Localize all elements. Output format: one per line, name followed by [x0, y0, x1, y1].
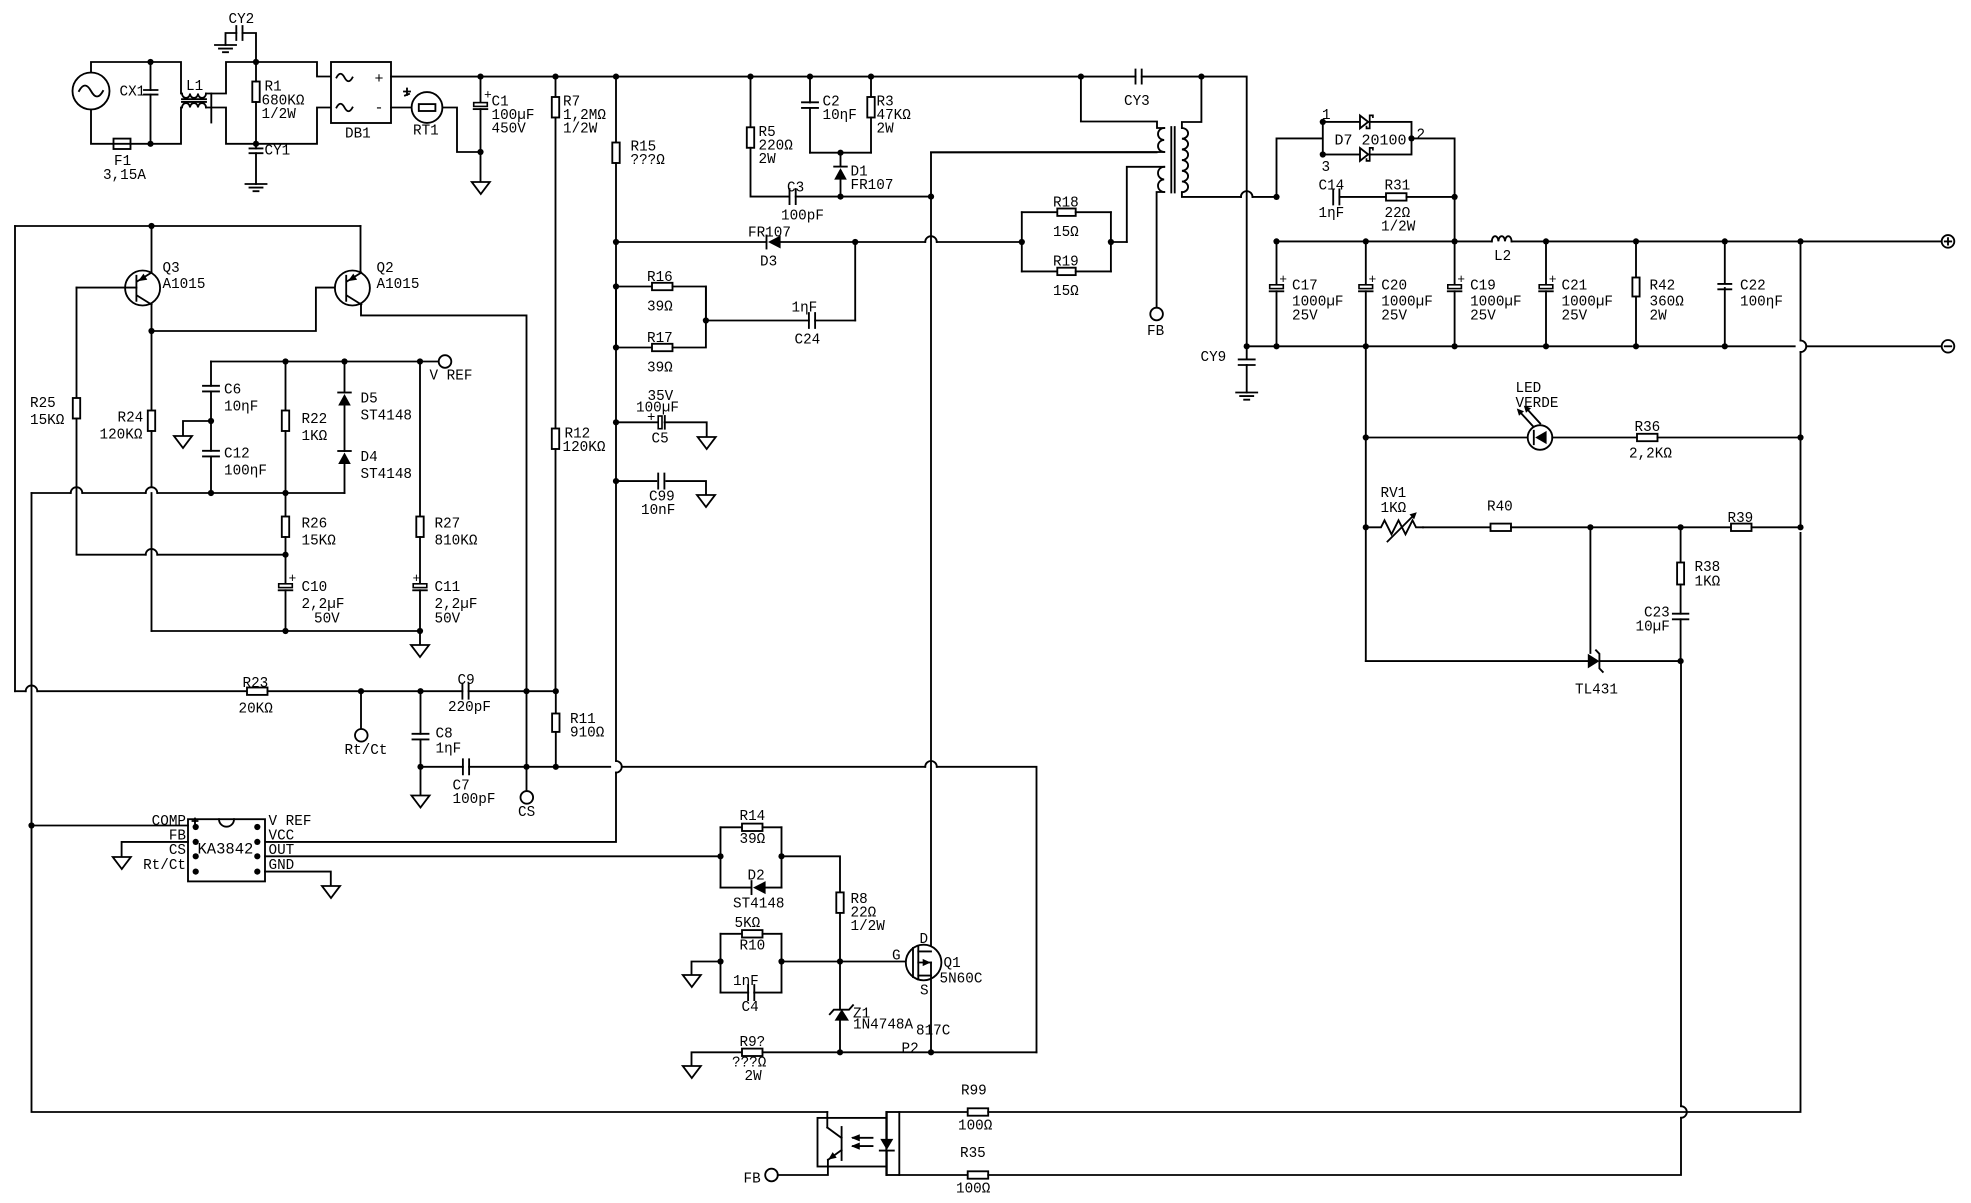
wire out minus row a [1247, 345, 1795, 347]
resistor R10 [742, 930, 763, 937]
svg-text:R24: R24 [118, 411, 144, 427]
diode D2 [751, 881, 753, 894]
wire Q3 emitter lead [151, 226, 153, 273]
wire C22 bottom lead [1724, 288, 1726, 346]
svg-text:Q3: Q3 [163, 261, 180, 277]
wire D7 left vertical [1277, 138, 1323, 197]
node node R27 top [417, 358, 423, 364]
svg-text:FR107: FR107 [851, 178, 894, 194]
wire aux to R18 node [1111, 241, 1127, 243]
opto light arrows [853, 1138, 873, 1146]
svg-text:1ηF: 1ηF [436, 742, 462, 758]
svg-text:D7 20100: D7 20100 [1335, 132, 1407, 149]
node node C1 bottom [477, 149, 483, 155]
resistor R22 [282, 411, 289, 432]
node node CS [523, 764, 529, 770]
wire VCC vertical upper [615, 163, 617, 761]
resistor R12 [552, 429, 559, 450]
D7 diode bottom [1360, 148, 1368, 161]
wire C4 row b [754, 992, 781, 994]
wire out rail a [1277, 240, 1492, 242]
wire R18 row a [1022, 211, 1058, 213]
svg-text:R14: R14 [740, 809, 766, 825]
wire snubber to transformer [931, 152, 1157, 196]
transformer T1 core [1171, 127, 1174, 193]
inductor L1 [182, 94, 206, 98]
wire TL431 row b [1599, 660, 1680, 662]
wire D3 row mid [781, 241, 856, 243]
capacitor C99 [658, 474, 664, 489]
wire hop row555 over Q3 line [146, 549, 158, 555]
svg-text:C21: C21 [1562, 279, 1588, 295]
resistor R11 [552, 714, 559, 732]
svg-text:1KΩ: 1KΩ [1695, 575, 1721, 591]
wire hop VCC vertical over CS row [616, 761, 622, 773]
svg-text:1ηF: 1ηF [1319, 206, 1345, 222]
wire drain vertical [930, 197, 932, 952]
wire LED row a [1366, 437, 1528, 439]
svg-text:910Ω: 910Ω [570, 726, 605, 742]
svg-text:D2: D2 [748, 869, 765, 885]
svg-text:R42: R42 [1650, 279, 1676, 295]
wire D4 bottom lead [344, 464, 346, 493]
wire C9 to CS row [526, 691, 528, 767]
wire CY1 bottom lead [255, 153, 257, 184]
wire RtCt stub [360, 691, 362, 729]
terminal FB2 [765, 1169, 778, 1182]
node node R22 bottom [282, 490, 288, 496]
capacitor C1 [474, 103, 488, 107]
node node R11 top [553, 688, 559, 694]
wire R39 right lead [1752, 526, 1801, 528]
wire Q2 collector lead [361, 304, 527, 691]
node node D5 top [341, 358, 347, 364]
wire Z1 bottom lead [839, 1021, 841, 1053]
wire row692 d [469, 690, 556, 692]
svg-text:COMP: COMP [152, 814, 186, 830]
wire TL431 ref vert [1589, 527, 1591, 653]
svg-text:FB: FB [744, 1172, 762, 1188]
transformer T1 primary [1158, 128, 1164, 152]
svg-text:CY2: CY2 [229, 12, 255, 28]
wire bias rail [15, 225, 361, 227]
wire primary bottom lead [931, 151, 1164, 153]
wire RV1 row b [1590, 526, 1680, 528]
svg-text:100pF: 100pF [453, 792, 496, 808]
wire C8 gnd stub [420, 767, 422, 796]
svg-text:Q1: Q1 [944, 956, 961, 972]
capacitor C24 [809, 313, 815, 328]
svg-text:39Ω: 39Ω [740, 832, 766, 848]
wire LED row b [1552, 437, 1637, 439]
wire R38 to C23 [1680, 585, 1682, 614]
transistor Q3 [125, 271, 160, 306]
wire C5 left lead [616, 421, 658, 423]
svg-text:CY1: CY1 [265, 144, 291, 160]
wire CY9 bottom lead [1246, 365, 1248, 393]
capacitor CY1 [250, 148, 263, 153]
node node TL431 cathode [1678, 658, 1684, 664]
ground CY1 [246, 184, 267, 191]
wire Q1 source lead [930, 963, 932, 1053]
node node C1 top [477, 74, 483, 80]
wire F1 to CX1 bottom [131, 143, 151, 145]
svg-text:C24: C24 [795, 333, 821, 349]
ground R9 [683, 1066, 701, 1078]
wire C24 right lead [815, 320, 855, 322]
wire R7 to R12 [555, 118, 557, 429]
capacitor C23 [1673, 614, 1689, 620]
node node R42 bottom [1633, 343, 1639, 349]
svg-text:R10: R10 [740, 939, 766, 955]
svg-text:25V: 25V [1470, 309, 1496, 325]
wire C2 bottom lead [809, 108, 811, 153]
wire D1 top lead [840, 153, 842, 167]
terminal minus [1942, 340, 1955, 353]
svg-text:FB: FB [1147, 324, 1165, 340]
svg-text:KA3842: KA3842 [198, 841, 254, 859]
wire R15 top lead [615, 77, 617, 143]
wire R40 right lead [1511, 526, 1590, 528]
svg-text:1KΩ: 1KΩ [1381, 501, 1407, 517]
wire D7 pin2 wire [1412, 138, 1455, 197]
wire R18 box right [1110, 212, 1112, 271]
node node C17 bottom [1273, 343, 1279, 349]
svg-text:15KΩ: 15KΩ [302, 534, 337, 550]
node node R11 bottom [553, 764, 559, 770]
wire LED row c [1658, 437, 1801, 439]
ground IC [322, 886, 340, 898]
wire C17 bottom lead [1276, 291, 1278, 346]
resistor R31 [1386, 193, 1407, 200]
svg-text:CY3: CY3 [1124, 94, 1150, 110]
svg-text:10nF: 10nF [641, 503, 675, 519]
wire C21 top lead [1545, 241, 1547, 284]
node pin 3 D7 [1320, 151, 1326, 157]
svg-text:C14: C14 [1319, 179, 1345, 195]
capacitor C7 [463, 759, 469, 774]
node node R14 right [778, 853, 784, 859]
svg-text:G: G [892, 949, 901, 965]
capacitor C21 [1539, 285, 1553, 289]
resistor R5 [747, 127, 754, 148]
svg-text:C9: C9 [458, 673, 475, 689]
wire hop plus vert over minus row [1801, 341, 1807, 353]
svg-text:V REF: V REF [269, 814, 312, 830]
svg-text:+: + [413, 571, 421, 586]
wire C14 row a [1240, 196, 1242, 198]
D7 diode top [1360, 116, 1368, 129]
wire CY2 right lead [243, 33, 257, 62]
wire gate row [782, 961, 912, 963]
node node R10 right [778, 958, 784, 964]
svg-text:25V: 25V [1562, 309, 1588, 325]
wire TL431 row a [1366, 660, 1588, 662]
svg-text:FR107: FR107 [748, 226, 791, 242]
wire C3 right [796, 196, 931, 198]
node node C10 bottom [282, 628, 288, 634]
svg-text:R99: R99 [961, 1084, 987, 1100]
terminal V REF [439, 355, 452, 368]
svg-text:39Ω: 39Ω [647, 300, 673, 316]
node node R16 left [613, 283, 619, 289]
wire CX1 to L1 bottom [151, 108, 182, 144]
resistor R14 [742, 824, 763, 831]
wire R42 bottom lead [1635, 297, 1637, 347]
wire C2 R3 bus [810, 152, 871, 154]
resistor R3 [867, 97, 874, 118]
node node C24 top [852, 239, 858, 245]
svg-text:R17: R17 [647, 331, 673, 347]
node node Q3 emitter [148, 223, 154, 229]
svg-text:???Ω: ???Ω [631, 153, 666, 169]
wire C20 top lead [1365, 241, 1367, 284]
ground gate [683, 975, 701, 987]
svg-text:TL431: TL431 [1575, 683, 1618, 699]
svg-text:R18: R18 [1053, 196, 1079, 212]
node node R10 left [717, 958, 723, 964]
wire R1 bottom lead [255, 102, 257, 144]
wire R35 row a [899, 1174, 967, 1176]
wire plus vert a [1800, 241, 1802, 340]
wire Q3 base lead [77, 287, 137, 289]
wire FB wire [122, 842, 188, 857]
svg-text:220pF: 220pF [448, 700, 491, 716]
svg-text:A1015: A1015 [163, 277, 206, 293]
wire R11 bottom lead [555, 732, 557, 767]
svg-text:+: + [375, 71, 384, 88]
terminal CS [521, 791, 534, 804]
svg-text:2W: 2W [745, 1069, 763, 1085]
node node R14 left [717, 853, 723, 859]
svg-text:ST4148: ST4148 [733, 897, 784, 913]
node node D3 left [613, 239, 619, 245]
svg-text:+: + [1457, 272, 1465, 287]
wire ground row [152, 630, 421, 632]
diode D4 [338, 450, 351, 452]
capacitor C14 [1333, 189, 1339, 204]
rectifier D7 box [1323, 122, 1412, 155]
svg-text:817C: 817C [916, 1024, 950, 1040]
opto phototransistor [841, 1127, 843, 1160]
node node COMP [28, 822, 34, 828]
svg-text:10ηF: 10ηF [823, 108, 857, 124]
capacitor C9 [462, 684, 468, 699]
wire row555 right [157, 554, 285, 556]
wire C22 top lead [1724, 241, 1726, 282]
wire C19 bottom lead [1454, 291, 1456, 346]
node node C5 left [613, 419, 619, 425]
node node C20 bottom [1363, 343, 1369, 349]
node node C22 top [1722, 238, 1728, 244]
svg-text:VCC: VCC [269, 829, 295, 845]
wire secondary top lead [1182, 77, 1202, 128]
wire C6 gnd stub [183, 421, 211, 436]
resistor R9? [742, 1049, 763, 1056]
svg-text:CX1: CX1 [120, 85, 146, 101]
capacitor C12 [203, 451, 219, 457]
node node R36 right [1797, 434, 1803, 440]
svg-text:Rt/Ct: Rt/Ct [143, 858, 186, 874]
wire C17 top lead [1276, 241, 1278, 284]
node node R1 top [253, 59, 259, 65]
wire R8 bottom lead [839, 913, 841, 962]
ground C5 [698, 437, 716, 449]
node node R31 right [1452, 194, 1458, 200]
resistor R35 [968, 1171, 989, 1178]
svg-text:C6: C6 [224, 383, 241, 399]
wire R8 top lead [782, 856, 841, 892]
node node CY3 left [1078, 74, 1084, 80]
resistor R15 [612, 143, 619, 164]
svg-text:100ηF: 100ηF [224, 464, 267, 480]
wire gate gnd stub [692, 962, 721, 976]
svg-text:C22: C22 [1740, 279, 1766, 295]
node node C21 top [1543, 238, 1549, 244]
resistor R16 [652, 283, 673, 290]
wire Q3 collector lead [151, 305, 153, 332]
wire C4 row a [721, 992, 749, 994]
svg-text:CS: CS [518, 805, 535, 821]
wire D2 row b [766, 887, 782, 889]
wire L1 bottom right [206, 108, 256, 144]
wire R14 box left [720, 827, 722, 887]
wire row692 c [268, 690, 463, 692]
svg-text:C8: C8 [436, 727, 453, 743]
node node C8 top [417, 688, 423, 694]
svg-text:120KΩ: 120KΩ [100, 428, 143, 444]
wire R16 right lead [673, 287, 706, 321]
wire ac bottom to F1 [91, 110, 114, 144]
wire R18 box left [1021, 212, 1023, 271]
wire R24 vertical lower [151, 431, 153, 487]
node node C24 left [703, 317, 709, 323]
diode D5 [338, 392, 351, 394]
svg-text:CY9: CY9 [1201, 350, 1227, 366]
wire R24 vertical upper [151, 331, 153, 411]
resistor R26 [282, 517, 289, 538]
wire FB to opto emitter [778, 1167, 828, 1176]
svg-text:1KΩ: 1KΩ [302, 429, 328, 445]
svg-text:R40: R40 [1487, 500, 1513, 516]
wire R35 row b [988, 1118, 1681, 1175]
wire Q2 emitter lead [360, 226, 362, 273]
wire CS row c [622, 766, 925, 768]
svg-text:+: + [1549, 272, 1557, 287]
node node R5 top [747, 74, 753, 80]
shunt regulator TL431 [1588, 654, 1600, 669]
ground C11 row [411, 645, 429, 657]
wire row493 c [157, 492, 344, 494]
capacitor C4 [748, 985, 754, 1000]
capacitor C3 [790, 189, 796, 204]
resistor R7 [552, 97, 559, 118]
svg-text:25V: 25V [1292, 309, 1318, 325]
wire C5 right lead [665, 422, 707, 437]
wire C6 bottom lead [210, 391, 212, 450]
svg-text:25V: 25V [1381, 309, 1407, 325]
node node R38 top [1678, 524, 1684, 530]
svg-text:1/2W: 1/2W [563, 122, 598, 138]
resistor R1 [252, 82, 259, 103]
wire C20 bottom lead [1365, 291, 1367, 346]
node node C12 bottom [208, 490, 214, 496]
wire CS stub [526, 767, 528, 791]
wire D2 row a [721, 887, 751, 889]
wire CY9 top lead [1246, 346, 1248, 359]
wire OUT wire [265, 855, 721, 857]
wire CS row d [937, 767, 1037, 1053]
wire R10 top row b [763, 933, 782, 935]
ground C99 [697, 495, 715, 507]
capacitor C8 [413, 734, 429, 740]
resistor R99 [968, 1108, 989, 1115]
svg-text:R35: R35 [960, 1146, 986, 1162]
ground FB [113, 857, 131, 869]
transistor Q2 [335, 271, 370, 306]
wire D5 to D4 [344, 406, 346, 452]
wire minus vert [1365, 346, 1367, 661]
capacitor CX1 [144, 90, 158, 95]
potentiometer RV1 [1366, 520, 1423, 534]
node node LED left [1363, 434, 1369, 440]
wire opto collector corner [826, 1112, 828, 1118]
wire C99 left lead [616, 480, 656, 482]
wire C10 top lead [285, 555, 287, 584]
resistor R8 [836, 892, 843, 913]
node node C6 C12 [208, 418, 214, 424]
node node D1 top [837, 150, 843, 156]
capacitor C20 [1359, 285, 1373, 289]
svg-text:DB1: DB1 [345, 127, 371, 143]
svg-text:50V: 50V [435, 612, 461, 628]
svg-text:C4: C4 [742, 1000, 759, 1016]
wire C14 to R31 [1339, 196, 1386, 198]
svg-text:ST4148: ST4148 [361, 467, 412, 483]
wire D1 bottom lead [840, 180, 842, 197]
wire RV1 row c [1681, 526, 1731, 528]
svg-text:+: + [647, 410, 655, 426]
node node R7 top [552, 74, 558, 80]
node node CY3 right [1198, 74, 1204, 80]
svg-text:10ηF: 10ηF [224, 400, 258, 416]
svg-text:+: + [289, 571, 297, 586]
wire CS row a [421, 766, 463, 768]
wire hop row493 over R24 [146, 487, 158, 493]
wire R3 bottom lead [870, 118, 872, 153]
resistor R38 [1677, 563, 1684, 585]
wire R17 left lead [616, 347, 652, 349]
svg-text:2,2KΩ: 2,2KΩ [1629, 447, 1672, 463]
svg-text:R9?: R9? [740, 1035, 766, 1051]
wire RV1 to R40 [1423, 526, 1491, 528]
wire C10 bottom lead [285, 590, 287, 631]
wire R17 right lead [673, 287, 706, 348]
svg-text:R27: R27 [435, 517, 461, 533]
wire R25 top lead [76, 288, 78, 398]
svg-text:50V: 50V [314, 612, 340, 628]
wire D3 row right b [937, 241, 1022, 243]
node node C9 right [523, 688, 529, 694]
resistor R19 [1057, 268, 1075, 275]
svg-text:C20: C20 [1381, 279, 1407, 295]
svg-text:5N60C: 5N60C [940, 972, 983, 988]
wire plus vert b [1800, 352, 1802, 527]
resistor R25 [73, 398, 80, 419]
wire to DB1 ac2 [256, 108, 331, 144]
svg-text:15KΩ: 15KΩ [30, 413, 65, 429]
node node CY9 top [1244, 343, 1250, 349]
